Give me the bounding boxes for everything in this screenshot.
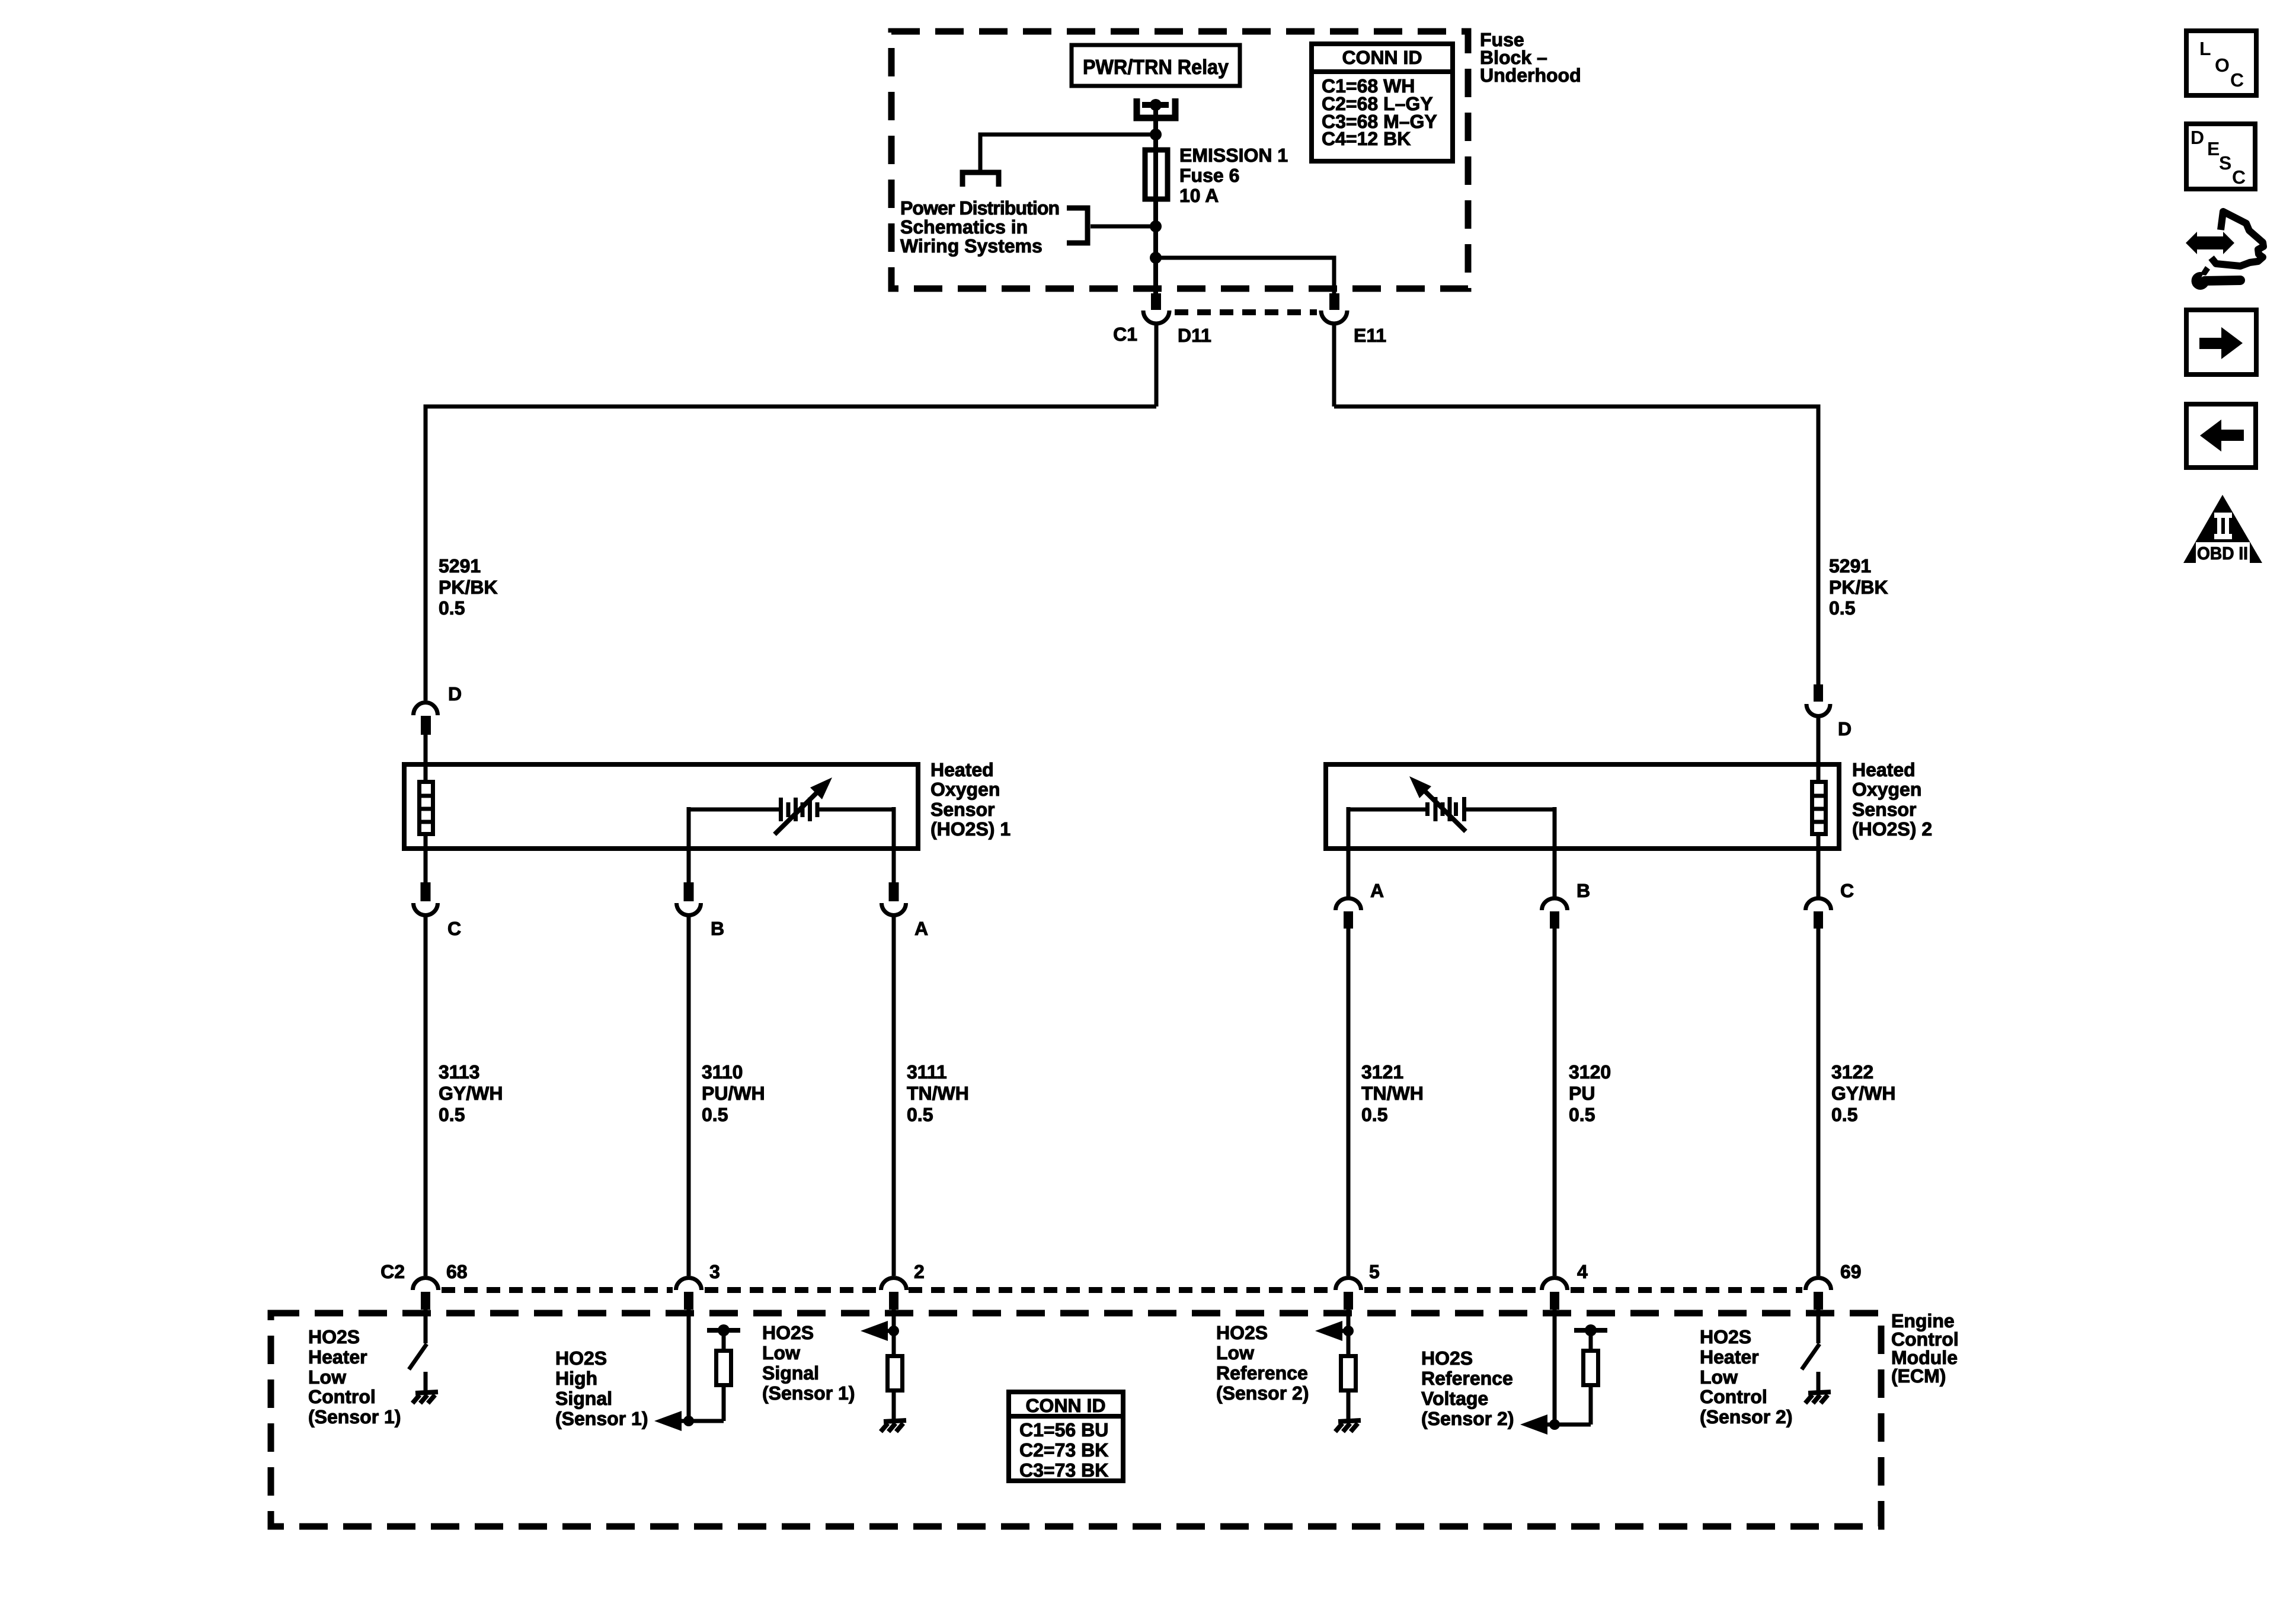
svg-text:Low: Low [308,1366,346,1388]
heater element HO2S1 [424,767,428,780]
svg-text:S: S [2219,152,2231,174]
pin 5 low reference network [1347,1310,1351,1357]
arrow across battery HO2S1 [775,789,821,834]
connector D right (HO2S2) [1814,684,1823,702]
connector pin B sensor2 [1542,898,1568,910]
svg-text:0.5: 0.5 [1361,1104,1387,1125]
label Heated Oxygen Sensor (HO2S) 1 [930,759,1011,840]
svg-text:3121: 3121 [1361,1061,1403,1083]
sensing element (variable battery) HO2S1 [689,808,779,812]
sensing element (variable battery) HO2S2 [1348,808,1427,812]
svg-text:C4=12 BK: C4=12 BK [1322,128,1411,149]
label circuit 3110 PU/WH 0.5 [702,1061,765,1125]
svg-text:Wiring Systems: Wiring Systems [900,235,1043,257]
svg-text:3120: 3120 [1569,1061,1611,1083]
svg-text:HO2S: HO2S [1421,1347,1473,1369]
icon hose and wrench [2186,212,2263,290]
relay contact symbol [1137,98,1175,118]
svg-text:Underhood: Underhood [1480,65,1581,86]
svg-text:Control: Control [308,1386,376,1407]
label HO2S Low Reference (Sensor 2) [1216,1322,1309,1404]
svg-text:Control: Control [1700,1386,1767,1407]
svg-text:Low: Low [1700,1366,1738,1388]
svg-text:A: A [1370,880,1384,901]
label circuit 5291 PK/BK 0.5 right [1829,555,1888,619]
svg-text:3113: 3113 [439,1061,479,1083]
svg-text:High: High [555,1368,597,1389]
svg-text:0.5: 0.5 [1829,597,1855,619]
connector pin 68 C2 [413,1278,439,1291]
label HO2S Heater Low Control (Sensor 1) [308,1326,401,1427]
wire A riser HO2S2 [1347,807,1351,897]
HO2S1 box [404,764,918,849]
svg-text:HO2S: HO2S [762,1322,814,1343]
label C1 [1113,324,1137,345]
label HO2S Reference Voltage (Sensor 2) [1421,1347,1514,1429]
label D11 [1178,325,1211,346]
bracket callout power distribution [1067,208,1088,243]
svg-text:PK/BK: PK/BK [439,577,498,598]
svg-text:Heater: Heater [1700,1346,1759,1368]
label Engine Control Module (ECM) [1891,1310,1959,1387]
wire B riser HO2S1 [687,807,691,882]
svg-text:C2=73 BK: C2=73 BK [1019,1439,1108,1461]
svg-text:0.5: 0.5 [1569,1104,1595,1125]
icon DESC box [2186,124,2255,189]
svg-text:Schematics in: Schematics in [900,216,1028,238]
svg-text:C2: C2 [380,1261,405,1282]
svg-text:68: 68 [446,1261,468,1282]
ECM dashed box [271,1313,1881,1526]
pin 3 high signal network [687,1310,691,1421]
label HO2S Low Signal (Sensor 1) [762,1322,855,1404]
connector pin C sensor2 [1806,898,1831,910]
svg-text:10 A: 10 A [1179,185,1219,206]
icon OBD II triangle [2183,495,2262,564]
svg-text:(Sensor 1): (Sensor 1) [308,1406,401,1427]
svg-text:PK/BK: PK/BK [1829,577,1888,598]
svg-text:C: C [447,918,461,939]
wire D11 down to bus [1155,324,1159,406]
pin 2 low signal network [892,1310,896,1356]
wire bus left [426,406,1156,700]
relay K: PWR/TRN Relay box [1072,45,1240,86]
label Heated Oxygen Sensor (HO2S) 2 [1852,759,1932,840]
svg-text:69: 69 [1840,1261,1862,1282]
wire heater to pin C right [1817,836,1821,897]
svg-text:B: B [711,918,724,939]
svg-text:CONN ID: CONN ID [1025,1395,1105,1416]
connector D left (HO2S1) [414,703,438,716]
label circuit 3113 GY/WH 0.5 [439,1061,503,1125]
svg-text:Fuse 6: Fuse 6 [1179,165,1239,186]
svg-text:Power Distribution: Power Distribution [900,197,1060,219]
wire heater to pin C [424,836,428,882]
svg-text:(Sensor 2): (Sensor 2) [1700,1406,1792,1427]
resistor pin 2 [888,1356,903,1391]
svg-text:3122: 3122 [1831,1061,1873,1083]
wire C sensor2 to ECM 69 [1817,929,1821,1276]
connector pin B sensor1 [684,882,694,901]
svg-text:HO2S: HO2S [1216,1322,1268,1343]
wire to power distribution callout [1091,225,1156,229]
svg-text:TN/WH: TN/WH [907,1083,969,1104]
node junction 2 [1150,220,1162,232]
wire bus right [1334,406,1818,684]
icon LOC box [2186,31,2256,95]
label circuit 5291 PK/BK 0.5 left [439,555,498,619]
connector pin A sensor2 [1336,898,1361,910]
label circuit 3120 PU 0.5 [1569,1061,1611,1125]
resistor pin 5 [1341,1356,1356,1391]
svg-text:Heated: Heated [1852,759,1916,780]
connector C1 pin D11 [1151,293,1161,310]
wire A riser HO2S1 [892,807,896,882]
svg-text:D: D [1838,718,1851,740]
svg-text:PWR/TRN Relay: PWR/TRN Relay [1083,56,1229,79]
connector table CONN ID ECM [1009,1392,1123,1481]
svg-text:C1: C1 [1113,324,1137,345]
svg-text:GY/WH: GY/WH [439,1083,503,1104]
svg-text:HO2S: HO2S [1700,1326,1751,1347]
svg-text:(HO2S) 1: (HO2S) 1 [930,818,1011,840]
heater element HO2S2 [1817,767,1821,780]
icon arrow right box [2186,310,2256,375]
wire branch to relay coil elsewhere [980,135,1156,172]
svg-text:2: 2 [914,1261,925,1282]
svg-text:4: 4 [1577,1261,1588,1282]
label circuit 3111 TN/WH 0.5 [907,1061,969,1125]
svg-text:Sensor: Sensor [1852,799,1916,820]
connector pin E11 [1329,293,1339,310]
svg-text:C: C [1840,880,1854,901]
fuse block underhood dashed box [891,31,1468,289]
svg-text:0.5: 0.5 [907,1104,933,1125]
svg-text:(HO2S) 2: (HO2S) 2 [1852,818,1932,840]
svg-text:3111: 3111 [907,1061,947,1083]
arrow across battery HO2S2 [1419,786,1466,831]
svg-text:Heater: Heater [308,1346,367,1368]
svg-text:0.5: 0.5 [439,597,465,619]
svg-text:D: D [448,683,462,705]
pin 4 reference voltage network [1553,1310,1557,1425]
label E11 [1354,325,1386,346]
svg-text:C3=73 BK: C3=73 BK [1019,1459,1108,1481]
label HO2S Heater Low Control (Sensor 2) [1700,1326,1792,1427]
svg-text:EMISSION 1: EMISSION 1 [1179,145,1288,166]
svg-text:5: 5 [1369,1261,1380,1282]
svg-text:(Sensor 2): (Sensor 2) [1421,1408,1514,1429]
svg-text:HO2S: HO2S [555,1347,607,1369]
svg-text:E11: E11 [1354,325,1386,346]
svg-text:D11: D11 [1178,325,1211,346]
svg-text:C: C [2232,167,2246,188]
wire A sensor1 to ECM 2 [892,917,896,1276]
wire E11 down to bus [1332,324,1336,406]
svg-text:(Sensor 1): (Sensor 1) [762,1382,855,1404]
connector dashed line D11-E11 [1175,309,1317,315]
svg-text:Low: Low [1216,1342,1254,1363]
svg-text:Heated: Heated [930,759,994,780]
label Fuse Block Underhood [1480,29,1581,86]
node junction 3 [1153,226,1158,294]
svg-text:0.5: 0.5 [1831,1104,1857,1125]
svg-text:Sensor: Sensor [930,799,994,820]
svg-text:TN/WH: TN/WH [1361,1083,1424,1104]
svg-text:Reference: Reference [1216,1362,1308,1384]
svg-text:Signal: Signal [555,1388,612,1409]
label Power Distribution Schematics in Wiring Systems [900,197,1060,257]
svg-text:5291: 5291 [1829,555,1871,577]
HO2S2 box [1326,764,1839,849]
svg-text:PU/WH: PU/WH [702,1083,765,1104]
svg-text:E: E [2207,138,2220,159]
svg-text:B: B [1576,880,1590,901]
svg-text:(Sensor 1): (Sensor 1) [555,1408,648,1429]
icon arrow left box [2186,404,2256,468]
svg-text:GY/WH: GY/WH [1831,1083,1895,1104]
ground chassis pin 2 [881,1420,906,1432]
label HO2S High Signal (Sensor 1) [555,1347,648,1429]
svg-text:OBD II: OBD II [2197,544,2248,564]
svg-text:(Sensor 2): (Sensor 2) [1216,1382,1309,1404]
ground chassis pin 68 [412,1392,438,1403]
connector pin 2 [881,1278,907,1291]
wire B sensor1 to ECM 3 [687,917,691,1276]
node junction 1 [1150,129,1162,140]
connector pin 69 [1806,1278,1831,1291]
svg-text:(ECM): (ECM) [1891,1365,1946,1387]
bracket half-box symbol [962,172,999,187]
svg-text:HO2S: HO2S [308,1326,360,1347]
svg-text:Reference: Reference [1421,1368,1513,1389]
svg-text:0.5: 0.5 [439,1104,465,1125]
svg-text:Oxygen: Oxygen [1852,779,1921,800]
wire relay to junction [1153,105,1158,135]
svg-text:C1=56 BU: C1=56 BU [1019,1419,1108,1441]
connector pin 5 [1336,1278,1361,1291]
wire C sensor1 to ECM 68 [424,917,428,1276]
wire B sensor2 to ECM 4 [1553,929,1557,1276]
switch pin 69 heater low control [1817,1310,1821,1343]
svg-text:Signal: Signal [762,1362,819,1384]
svg-text:A: A [914,918,928,939]
ground chassis pin 5 [1335,1420,1361,1432]
svg-text:PU: PU [1569,1083,1595,1104]
connector pin 3 [676,1278,702,1291]
ECM connector row dotted line [442,1287,673,1293]
connector pin 4 [1542,1278,1568,1291]
svg-text:0.5: 0.5 [702,1104,728,1125]
resistor pin 3 [717,1351,731,1385]
svg-text:3: 3 [709,1261,720,1282]
label circuit 3122 GY/WH 0.5 [1831,1061,1895,1125]
switch pin 68 heater low control [424,1310,428,1343]
svg-text:3110: 3110 [702,1061,743,1083]
resistor pin 4 [1584,1351,1598,1385]
svg-text:CONN ID: CONN ID [1342,47,1422,68]
svg-text:Voltage: Voltage [1421,1388,1488,1409]
svg-text:C: C [2230,69,2244,91]
connector table CONN ID fuse block [1312,44,1453,161]
label circuit 3121 TN/WH 0.5 [1361,1061,1424,1125]
connector pin A sensor1 [889,882,899,901]
ground chassis pin 69 [1805,1392,1831,1403]
svg-text:L: L [2199,38,2211,59]
svg-text:5291: 5291 [439,555,481,577]
connector pin C sensor1 [421,882,431,901]
wire A sensor2 to ECM 5 [1347,929,1351,1276]
svg-text:D: D [2191,127,2204,148]
wire B riser HO2S2 [1553,807,1557,897]
svg-text:Oxygen: Oxygen [930,779,1000,800]
fuse F6 EMISSION 1 [1153,135,1158,226]
svg-text:O: O [2215,55,2230,76]
wire branch to E11 [1156,258,1334,294]
svg-text:Low: Low [762,1342,800,1363]
